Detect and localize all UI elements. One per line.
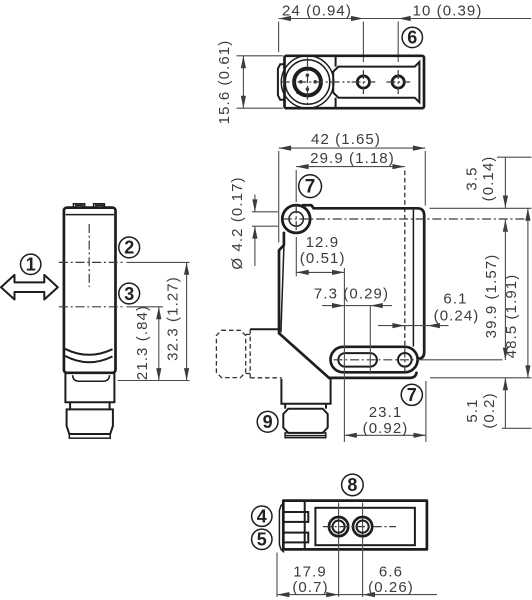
dim 48.5 (527, 208, 529, 377)
svg-text:(0.7): (0.7) (292, 579, 328, 596)
svg-text:3.5: 3.5 (464, 166, 481, 190)
hole 2 top view (392, 76, 404, 88)
step block (65, 373, 114, 402)
svg-text:(0.24): (0.24) (434, 308, 480, 325)
lens arc upper (65, 349, 113, 355)
dim Ø4.2 (252, 211, 278, 213)
notch line (250, 328, 281, 330)
circled 7 top (299, 175, 322, 198)
hole1 (289, 212, 303, 226)
neck front (284, 404, 286, 409)
svg-text:15.6 (0.61): 15.6 (0.61) (216, 40, 233, 125)
nut front (283, 409, 327, 433)
svg-text:7: 7 (305, 177, 316, 198)
hole1 crosshair v (295, 205, 297, 234)
svg-text:(0.26): (0.26) (368, 579, 414, 596)
svg-text:29.9 (1.18): 29.9 (1.18) (310, 150, 395, 167)
nut (67, 409, 113, 434)
svg-text:(0.14): (0.14) (480, 156, 497, 202)
ext axis2 to dim (127, 261, 190, 263)
svg-text:12.9: 12.9 (306, 234, 340, 251)
circled 2 (119, 237, 140, 258)
svg-text:17.9: 17.9 (293, 564, 327, 581)
dashed plug neck (246, 333, 251, 335)
svg-text:7: 7 (407, 385, 417, 405)
slot boss stadium (331, 347, 418, 373)
dim line 24/10 (279, 18, 531, 20)
left tab (278, 64, 285, 100)
dim 15.6 ext (237, 55, 284, 57)
lens centerline (323, 526, 396, 528)
right ext bottom edge (430, 377, 532, 379)
body rect bottom view (283, 501, 427, 550)
flange front (285, 433, 326, 438)
vertical centerline (88, 224, 90, 287)
dim 39.9 (504, 219, 506, 360)
svg-text:23.1: 23.1 (369, 404, 403, 421)
ext verticals lenses (338, 503, 340, 598)
svg-text:42 (1.65): 42 (1.65) (311, 131, 381, 148)
circled 8 (342, 474, 364, 496)
neck (69, 402, 71, 409)
svg-text:21.3 (.84): 21.3 (.84) (134, 305, 151, 380)
svg-text:39.9 (1.57): 39.9 (1.57) (483, 254, 500, 339)
step block front (281, 379, 330, 404)
dashed plug barrel (249, 329, 251, 378)
centerline vertical (307, 58, 309, 107)
top tab 1 (73, 204, 84, 208)
centerline horizontal (281, 81, 350, 83)
circled 7 bottom (401, 384, 422, 405)
hole1 crosshair h (283, 218, 531, 220)
body left edge upper (279, 233, 329, 378)
body side view (64, 208, 116, 373)
ext through slot (343, 268, 345, 442)
svg-text:48.5 (1.91): 48.5 (1.91) (503, 274, 520, 359)
body outline top (303, 205, 424, 359)
svg-text:9: 9 (263, 412, 273, 432)
connector notch (296, 90, 301, 95)
dim 21.3 (158, 307, 160, 381)
circled 5 (252, 529, 272, 549)
dim line 15.6 (242, 56, 244, 108)
svg-text:7.3 (0.29): 7.3 (0.29) (314, 285, 389, 302)
svg-text:5.1: 5.1 (464, 398, 481, 422)
slot (338, 353, 377, 367)
svg-text:6: 6 (407, 28, 417, 48)
svg-text:(0.92): (0.92) (363, 420, 409, 437)
inner right line (412, 210, 414, 347)
ext lines top (278, 22, 280, 53)
hole2 (398, 353, 412, 367)
svg-text:1: 1 (26, 254, 36, 274)
bar 4 (284, 512, 309, 522)
circled 4 (252, 506, 272, 526)
axis 2 dash-dot (59, 261, 124, 263)
connector pins (306, 73, 310, 77)
dashed plug nut (216, 330, 245, 377)
connector circles (281, 56, 333, 108)
top tab 2 (94, 204, 105, 208)
right ext top edge (430, 207, 532, 209)
lens 2 (353, 517, 372, 536)
svg-text:32.3 (1.27): 32.3 (1.27) (165, 276, 182, 361)
body rect top view (285, 56, 425, 108)
svg-text:10 (0.39): 10 (0.39) (413, 3, 483, 20)
svg-text:8: 8 (347, 475, 357, 495)
bar 5 (284, 533, 309, 543)
left inner edge (281, 247, 284, 333)
axis 3 dash-dot (59, 306, 124, 308)
svg-text:4: 4 (257, 506, 267, 526)
inner band (333, 62, 419, 102)
band edge verticals (335, 57, 337, 67)
dim 3.5 (497, 156, 532, 158)
left ext (276, 553, 278, 598)
circled 3 (119, 283, 140, 304)
circled 6 (402, 27, 422, 47)
svg-text:2: 2 (124, 238, 134, 258)
lens 1 (329, 517, 348, 536)
flange (69, 434, 110, 438)
cap seam (66, 214, 114, 216)
hole2 crosshair v (404, 349, 406, 373)
inner rect (315, 508, 415, 545)
lens arc lower (65, 356, 113, 362)
svg-text:24 (0.94): 24 (0.94) (282, 3, 352, 20)
ext axis3 to dim (127, 306, 164, 308)
divider (304, 501, 306, 550)
circled 9 (257, 411, 278, 432)
dim 32.3 (186, 262, 188, 380)
svg-text:6.1: 6.1 (443, 291, 467, 308)
lip (73, 375, 110, 381)
dim line bottom (277, 594, 437, 596)
left bracket (279, 503, 284, 553)
hole 1 top view (357, 76, 369, 88)
circled 1 (21, 254, 41, 274)
svg-text:(0.51): (0.51) (300, 250, 346, 267)
body bottom edge (329, 373, 417, 378)
ext bottom (118, 380, 190, 382)
svg-text:5: 5 (257, 530, 267, 550)
svg-text:Ø 4.2 (0.17): Ø 4.2 (0.17) (229, 176, 246, 269)
hole2 centerline dashed (404, 171, 406, 347)
svg-text:6.6: 6.6 (379, 564, 403, 581)
dim 5.1 (504, 378, 506, 429)
boss hole1 (282, 205, 310, 233)
double arrow (1, 275, 58, 300)
svg-text:(0.2): (0.2) (481, 392, 498, 428)
svg-text:3: 3 (124, 284, 134, 304)
slot centerline (334, 359, 420, 361)
